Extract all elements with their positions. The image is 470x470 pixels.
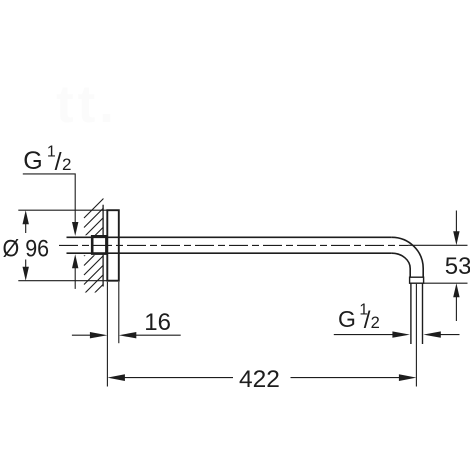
arrow leader down [72, 222, 78, 236]
label G1/2 top-left [23, 143, 71, 176]
centerline [59, 244, 408, 246]
arrow O96 top [23, 210, 29, 224]
extension line flange front (16) [118, 282, 120, 343]
G1/2 right dim line [334, 334, 460, 336]
svg-text:tt.: tt. [56, 75, 118, 134]
svg-text:G: G [338, 306, 356, 332]
outlet pipe walls [411, 283, 423, 344]
arrow 422 left [107, 374, 125, 381]
inner bend arc [392, 253, 410, 277]
shower arm tube: top line [67, 236, 392, 238]
extension line pipe centre (422) [415, 284, 417, 387]
wall face line [102, 205, 104, 287]
53 dim line [455, 211, 457, 322]
arrow G right-left [392, 331, 410, 337]
arrow 16 right [119, 332, 137, 338]
svg-text:G: G [23, 147, 42, 175]
arrow 422 right [399, 374, 417, 381]
wall hatching [84, 199, 104, 314]
16 dim line [72, 334, 181, 336]
arrow 53 top [453, 231, 459, 245]
G1/2 top-left leader underline [23, 174, 75, 222]
svg-text:Ø 96: Ø 96 [3, 235, 50, 262]
422 dim line [124, 377, 400, 379]
flange escutcheon [107, 210, 119, 281]
arrow leader up + tail [74, 268, 76, 289]
svg-text:422: 422 [239, 366, 280, 393]
label G1/2 right [338, 302, 380, 334]
svg-text:2: 2 [62, 155, 71, 174]
arrow O96 bottom [23, 267, 29, 281]
svg-text:53: 53 [445, 253, 470, 280]
O96 dim line [25, 224, 27, 267]
svg-text:2: 2 [371, 314, 380, 332]
O96 extension bottom [18, 280, 107, 282]
shower arm tube: bottom line [67, 252, 392, 254]
extension line left (422/16) [106, 282, 108, 387]
wall nipple (thick) [92, 236, 106, 253]
arrow 53 bottom [453, 283, 459, 297]
svg-text:/: / [55, 148, 62, 176]
arrow G right-right [423, 331, 441, 337]
svg-text:16: 16 [144, 309, 171, 336]
53 lower extension [424, 282, 468, 284]
arrow 16 left [90, 332, 108, 338]
O96 extension top [18, 209, 107, 211]
threaded collar at outlet [410, 277, 424, 283]
outer bend arc [392, 237, 423, 277]
53 upper extension (centerline ext) [408, 244, 468, 246]
